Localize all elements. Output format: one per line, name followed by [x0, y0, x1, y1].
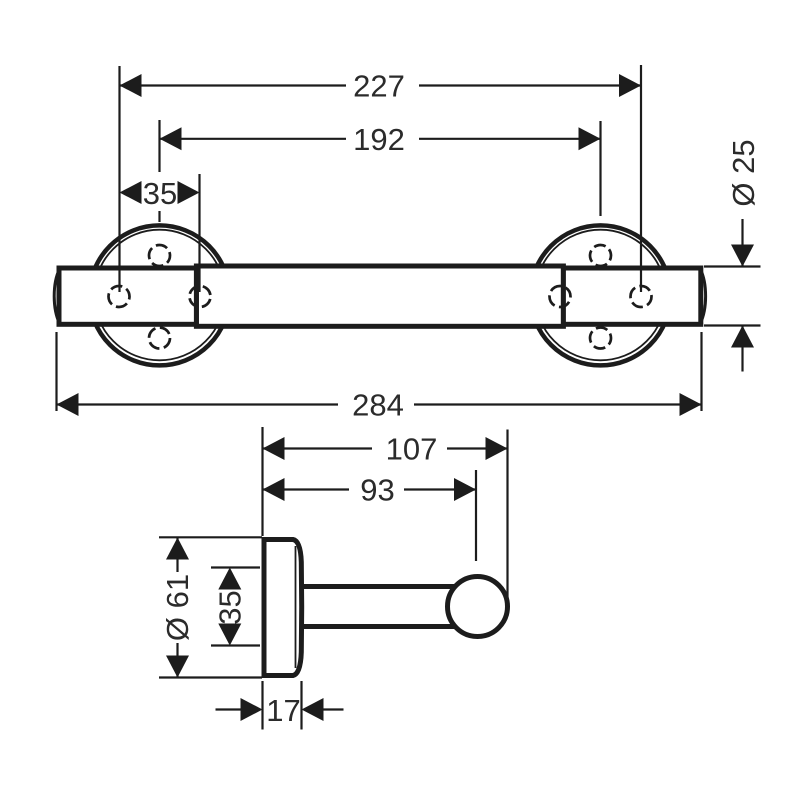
svg-text:Ø 25: Ø 25: [726, 139, 761, 206]
screw hole right flange top: [590, 245, 611, 266]
left end cap of bar: [59, 268, 196, 324]
dimension 35 arrows (top view): [120, 181, 142, 204]
dimension 107 line: [263, 447, 373, 449]
extension line at left screw hole (227 dim): [118, 66, 120, 292]
svg-text:17: 17: [266, 693, 300, 728]
left flange outer circle: [90, 225, 230, 365]
extension line at ball center (93 dim): [475, 470, 477, 561]
35 dimension arrows (side view): [218, 568, 241, 590]
screw hole left flange bottom: [149, 328, 170, 349]
svg-text:284: 284: [352, 388, 404, 423]
svg-text:35: 35: [212, 590, 247, 624]
tube arm (side view): [301, 584, 462, 589]
screw hole left flange left: [109, 286, 130, 307]
dimension 192 line: [160, 138, 347, 140]
right end cap of bar: [563, 268, 700, 324]
extension line wall plane (left, 107/93 dims): [261, 427, 263, 536]
svg-text:93: 93: [360, 473, 394, 508]
dimension 284 extension lines: [55, 332, 57, 411]
Ø61 extension lines: [159, 536, 262, 538]
17 extension lines: [261, 681, 263, 730]
dimension 227 line: [120, 84, 347, 86]
screw hole left flange top: [149, 245, 170, 266]
extension line at right screw hole (227 dim): [640, 65, 642, 292]
svg-text:192: 192: [353, 122, 405, 157]
center line right flange (192 dim extension): [599, 121, 601, 216]
dimension 93 line: [263, 488, 350, 490]
svg-text:Ø 61: Ø 61: [160, 574, 195, 641]
left flange inner circle: [94, 230, 225, 361]
Ø25 extension lines (right of bar): [704, 265, 761, 267]
extension line at right of 35 dim: [198, 174, 200, 292]
dimension 284 line: [57, 403, 339, 405]
extension line at ball right edge (107 dim): [506, 430, 508, 598]
screw hole left flange right: [190, 286, 211, 307]
Ø61 dimension arrows: [176, 538, 178, 573]
svg-text:35: 35: [143, 176, 177, 211]
left end rounded tip: [54, 269, 59, 323]
center line left flange: [158, 120, 160, 172]
ball end (side view): [448, 577, 508, 637]
right flange outer circle: [531, 225, 671, 365]
screw hole right flange right: [631, 286, 652, 307]
screw hole right flange bottom: [590, 328, 611, 349]
right end rounded tip: [700, 269, 705, 323]
screw hole right flange left: [550, 286, 571, 307]
wall plate inner face line: [295, 546, 297, 668]
svg-text:227: 227: [353, 69, 405, 104]
svg-text:107: 107: [386, 432, 438, 467]
Ø25 dimension arrows: [741, 219, 743, 267]
central tube (bar): [196, 266, 563, 326]
wall plate (side view): [264, 540, 302, 676]
17 dimension arrows: [216, 708, 243, 710]
right flange inner circle: [535, 230, 666, 361]
35 extension lines (side view): [211, 566, 260, 568]
